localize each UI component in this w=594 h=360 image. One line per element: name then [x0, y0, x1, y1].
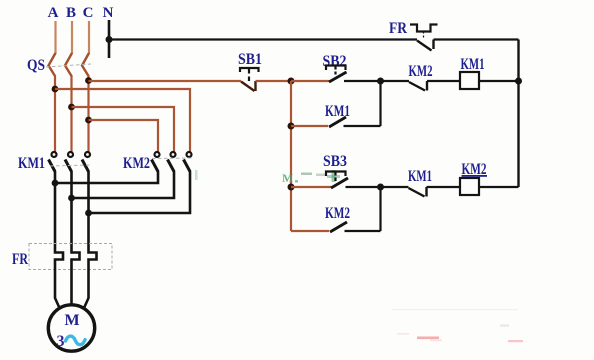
wire phase B supply stub [71, 21, 73, 54]
contactor KM1 main contact pole 3 [82, 152, 90, 172]
watermark pink marks [392, 309, 523, 342]
node junction KM2 out3 on line C [85, 210, 92, 217]
wire self-hold vertical row2 [379, 187, 381, 231]
contactor KM2 main contact pole 1 [152, 152, 160, 172]
svg-text:C: C [83, 5, 94, 21]
wire phase A supply stub [54, 21, 56, 54]
svg-text:SB1: SB1 [238, 51, 262, 68]
wire phase C supply stub [88, 21, 90, 54]
wire motor lead C [84, 270, 89, 308]
wire SB2 to junction [344, 80, 381, 82]
wire KM2 output 3 crossover to line C [89, 171, 191, 213]
wire SB3 to junction [346, 186, 381, 188]
pushbutton SB3 stem [334, 172, 336, 182]
wire A to KM2 input 3 [55, 89, 190, 152]
contact KM2 NC bar [426, 81, 428, 91]
svg-text:FR: FR [12, 251, 28, 268]
svg-text:SB3: SB3 [323, 153, 347, 170]
contact KM1 NO blade [329, 117, 346, 127]
motor tilde symbol [66, 336, 86, 345]
pushbutton SB3 NO blade [331, 178, 348, 188]
wire phase C after QS [87, 75, 89, 152]
svg-text:3: 3 [57, 333, 65, 350]
contactor KM1 linkage dashed [50, 165, 90, 166]
svg-text:KM1: KM1 [18, 155, 45, 172]
node junction KM2 out1 on line A [52, 180, 59, 187]
contactor KM2 linkage dashed [152, 157, 192, 160]
wire phase B after QS [70, 75, 72, 152]
wire left rail vertical [290, 81, 292, 231]
coil KM1 box [460, 72, 479, 89]
wire self-hold vertical row1 [379, 81, 381, 126]
svg-text:KM2: KM2 [325, 205, 350, 222]
node tap C for KM2 [85, 117, 92, 124]
wire SB1 to left rail [256, 80, 292, 82]
node junction SB2 output [377, 78, 384, 85]
motor M circle [48, 305, 94, 351]
node left rail junction row2 [288, 184, 295, 191]
switch QS linkage dashed [46, 64, 91, 67]
node N junction [106, 36, 113, 43]
wire phase A after QS [54, 75, 56, 152]
contactor KM1 main contact pole 2 [65, 152, 73, 172]
node junction KM2 out2 on line B [68, 195, 75, 202]
contact KM1 NC bar [425, 187, 427, 197]
svg-text:KM2: KM2 [409, 63, 433, 80]
coil KM2 label underline [462, 175, 488, 177]
contact KM2 NO blade [330, 222, 347, 232]
node tap A for KM2 [52, 86, 59, 93]
pushbutton SB3 cap [326, 172, 346, 177]
wire left rail to KM1 NO [291, 125, 328, 127]
wire left rail corner to KM2 NO [291, 230, 329, 232]
wire right rail [517, 40, 519, 188]
pushbutton SB2 stem [334, 66, 336, 75]
pushbutton SB1 NC blade [241, 82, 255, 92]
contact KM2 NC blade [409, 82, 425, 91]
contactor KM2 main contact pole 2 [168, 152, 176, 172]
wire KM1 pole2 down to motor line B [70, 171, 73, 244]
thermal relay FR heater 3 [89, 244, 97, 270]
wire C to KM2 input 1 [89, 120, 159, 152]
wire left rail to SB3 [291, 186, 331, 188]
wire control feed to SB1 [89, 80, 242, 82]
pushbutton SB1 cap [240, 68, 259, 72]
node tap B for KM2 [68, 104, 75, 111]
node junction SB3 output [377, 184, 384, 191]
wire N to FR contact [109, 38, 417, 40]
contact KM1 NC blade [409, 188, 425, 197]
node junction right rail row1 [515, 78, 522, 85]
switch QS pole C blade [82, 53, 89, 76]
pushbutton SB1 stem [248, 69, 250, 82]
wire KM2 NC to KM1 coil [427, 80, 461, 82]
thermal relay FR dashed box [29, 244, 112, 270]
wire KM2 output 1 crossover to line A [55, 171, 158, 183]
contactor KM2 main contact pole 3 [184, 152, 192, 172]
wire KM2 NO to vertical [345, 230, 381, 232]
pushbutton SB1 NC bar [254, 81, 256, 91]
svg-text:KM1: KM1 [461, 56, 485, 73]
wire left rail to SB2 [291, 80, 329, 82]
svg-text:N: N [103, 5, 114, 21]
svg-text:FR: FR [389, 20, 407, 37]
thermal relay FR heater 1 [55, 244, 63, 270]
switch QS pole A blade [49, 53, 56, 76]
wire KM1 pole1 down to motor line A [54, 171, 57, 244]
svg-text:KM1: KM1 [408, 168, 432, 185]
switch QS pole B blade [65, 53, 72, 76]
thermal relay FR contact element [410, 25, 438, 32]
svg-text:KM2: KM2 [123, 155, 150, 172]
wire motor lead B [70, 270, 73, 305]
node control feed tap on C [85, 77, 92, 84]
wire junction to KM2 NC [381, 80, 410, 82]
wire FR to right rail [434, 38, 519, 40]
pushbutton SB2 cap [326, 66, 346, 71]
wire KM2 output 2 crossover to line B [72, 171, 175, 198]
coil KM2 box [460, 178, 479, 195]
wire KM1 NC to KM2 coil [427, 186, 461, 188]
wire junction to KM1 NC [381, 186, 409, 188]
wire KM1 pole3 down to motor line C [87, 171, 90, 244]
wire KM2 coil to right rail [478, 186, 519, 188]
svg-text:B: B [66, 5, 76, 21]
node left rail junction row1b [288, 123, 295, 130]
wire motor lead A [55, 270, 60, 308]
thermal relay FR heater 2 [72, 244, 80, 270]
thermal relay FR NC contact blade [417, 41, 432, 51]
pushbutton SB2 NO blade [329, 72, 347, 82]
svg-text:M: M [64, 312, 79, 329]
thermal relay FR NC contact bar [432, 40, 434, 50]
watermark green text [195, 170, 340, 185]
contactor KM1 main contact pole 1 [49, 152, 57, 172]
thermal relay FR contact stem dashed [423, 32, 425, 40]
svg-text:A: A [48, 5, 59, 21]
wire KM1 coil to right rail [478, 80, 519, 82]
svg-text:QS: QS [27, 57, 45, 74]
wire B to KM2 input 2 [72, 107, 175, 152]
wire N vertical stub [108, 20, 111, 58]
node left rail top junction [288, 78, 295, 85]
wire KM1 NO to vertical [344, 125, 381, 127]
svg-text:M: M [282, 171, 293, 185]
